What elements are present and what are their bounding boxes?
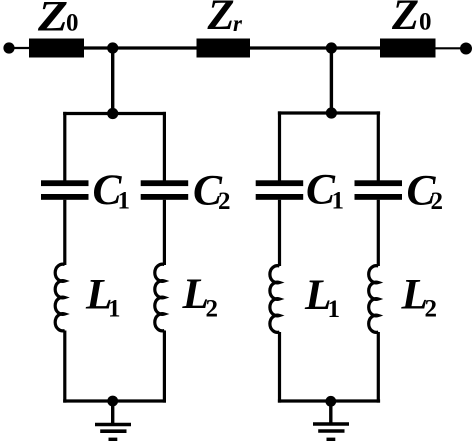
node A junction dot (top of branch 1) (107, 42, 118, 53)
left input terminal dot (3, 42, 14, 53)
impedance block Zr (197, 39, 251, 58)
svg-text:2: 2 (218, 188, 231, 215)
inductor L2 (branch 1) (155, 264, 165, 331)
ground symbol (branch 1) (95, 423, 131, 427)
inductor L2 (branch 2) (369, 266, 379, 333)
wire: branch-2 ground stub (329, 401, 332, 424)
svg-text:1: 1 (332, 188, 345, 215)
node B junction dot (top of branch 2) (326, 42, 337, 53)
branch-2 bottom junction dot (325, 396, 336, 407)
svg-text:2: 2 (425, 296, 438, 323)
wire: branch-2 left rail upper (to C1) (278, 111, 281, 180)
wire: branch-1 right rail upper (to C2) (163, 112, 166, 181)
capacitor C2 (branch 1) top plate (141, 180, 189, 186)
capacitor C2 (branch 2) bottom plate (355, 194, 403, 200)
wire: branch-2 bottom horizontal (278, 399, 380, 402)
wire: Z0 block to right terminal (436, 47, 467, 49)
capacitor C1 (branch 2) bottom plate (256, 194, 304, 200)
svg-text:0: 0 (66, 10, 79, 37)
svg-text:0: 0 (419, 9, 432, 36)
wire: branch-1 right rail lower (L2 to bottom) (163, 331, 166, 403)
capacitor C1 (branch 2) top plate (256, 180, 304, 186)
wire: left terminal to Z0 block (9, 47, 29, 49)
wire: branch-2 top horizontal (278, 111, 380, 114)
ground symbol (branch 2) (313, 422, 349, 426)
capacitor C1 (branch 1) top plate (41, 180, 89, 186)
capacitor C2 (branch 1) bottom plate (141, 194, 189, 200)
inductor L1 (branch 2) (270, 266, 280, 333)
wire: node B down to branch-2 top (330, 48, 333, 113)
impedance block Z0 (right) (380, 39, 436, 58)
wire: branch-1 top horizontal (63, 112, 166, 115)
wire: Z0 block to node A (84, 46, 113, 49)
wire: branch-2 right rail lower (L2 to bottom) (377, 332, 380, 403)
branch-1 bottom junction dot (107, 396, 118, 407)
svg-text:Z: Z (37, 0, 68, 40)
wire: branch-1 ground stub (111, 401, 114, 424)
wire: branch-1 right rail mid (C2 to L2) (163, 200, 166, 265)
wire: branch-1 left rail lower (L1 to bottom) (63, 331, 66, 403)
capacitor C1 (branch 1) bottom plate (41, 194, 89, 200)
capacitor C2 (branch 2) top plate (355, 180, 403, 186)
branch-2 top junction dot (326, 107, 337, 118)
branch-1 top junction dot (107, 108, 118, 119)
svg-text:r: r (233, 11, 243, 36)
wire: node B to Z0 block (right) (331, 46, 380, 49)
svg-text:1: 1 (108, 296, 121, 323)
wire: node A to Zr block (113, 46, 197, 49)
right output terminal dot (460, 43, 472, 55)
inductor L1 (branch 1) (55, 264, 65, 331)
impedance block Z0 (left) (29, 39, 84, 58)
svg-text:Z: Z (391, 0, 419, 39)
svg-text:2: 2 (206, 296, 219, 323)
wire: branch-2 left rail mid (C1 to L1) (278, 200, 281, 266)
wire: node A down to branch-1 top (111, 48, 114, 114)
wire: branch-1 left rail mid (C1 to L1) (63, 200, 66, 265)
wire: branch-2 right rail upper (to C2) (377, 111, 380, 180)
wire: branch-1 bottom horizontal (63, 399, 166, 402)
svg-text:2: 2 (431, 188, 444, 215)
wire: branch-2 right rail mid (C2 to L2) (377, 200, 380, 266)
wire: Zr block to node B (250, 46, 331, 49)
wire: branch-1 left rail upper (to C1) (63, 112, 66, 181)
svg-text:1: 1 (118, 188, 131, 215)
wire: branch-2 left rail lower (L1 to bottom) (278, 332, 281, 403)
svg-text:1: 1 (328, 296, 341, 323)
svg-text:Z: Z (206, 0, 234, 39)
